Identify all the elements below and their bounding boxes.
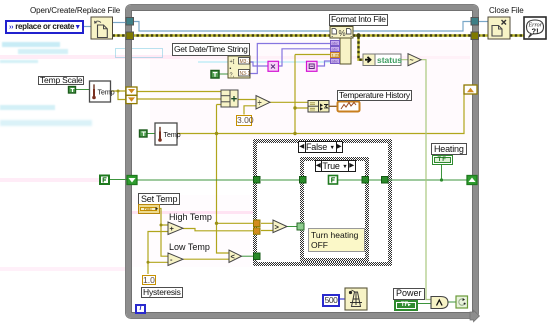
svg-text:N3·1: N3·1 xyxy=(240,71,251,77)
svg-text:?!: ?! xyxy=(532,27,539,36)
svg-text:abc: abc xyxy=(332,47,338,52)
svg-text:÷: ÷ xyxy=(258,98,262,107)
svg-text:?,: ?, xyxy=(230,73,235,79)
svg-text:Temp: Temp xyxy=(98,90,115,97)
svg-text:status: status xyxy=(377,55,402,65)
svg-text:Temp: Temp xyxy=(164,132,181,139)
svg-text:▪: ▪ xyxy=(230,66,232,72)
svg-text:~: ~ xyxy=(410,58,414,65)
svg-text:<: < xyxy=(231,252,236,261)
svg-text:M3·1: M3·1 xyxy=(240,59,252,65)
svg-text:+[: +[ xyxy=(230,59,235,65)
svg-text:+: + xyxy=(170,224,175,233)
svg-text:abc: abc xyxy=(332,59,338,64)
svg-text:1.23: 1.23 xyxy=(332,53,341,58)
svg-text:abc: abc xyxy=(332,41,338,46)
svg-text:%: % xyxy=(339,29,346,38)
svg-text:>: > xyxy=(275,223,280,232)
